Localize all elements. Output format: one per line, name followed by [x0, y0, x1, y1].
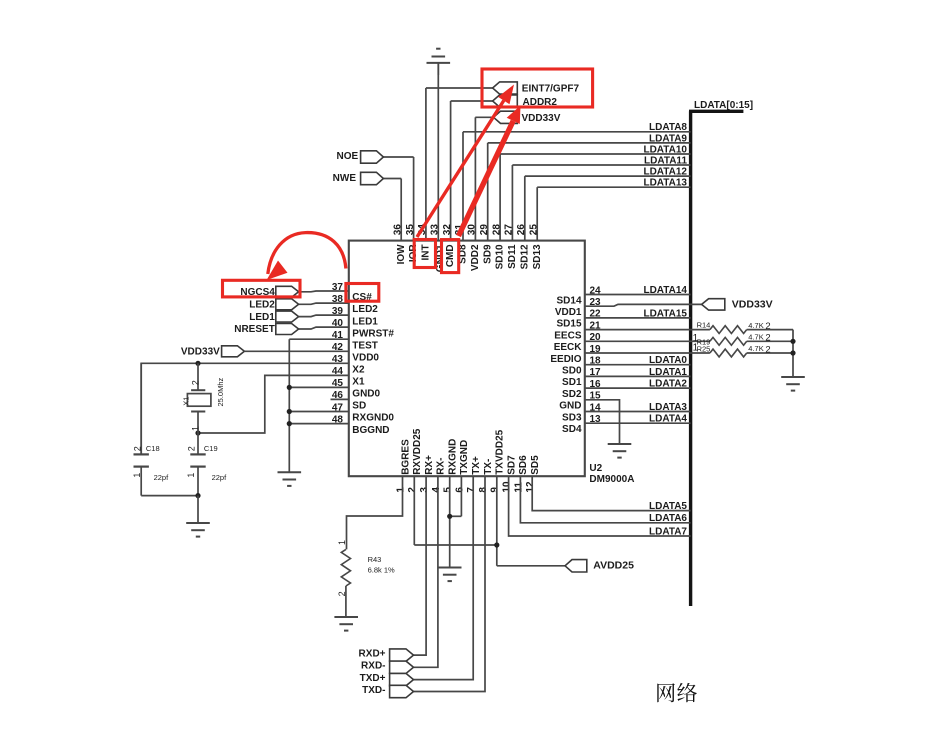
- svg-text:LED1: LED1: [249, 312, 275, 323]
- svg-text:SD11: SD11: [507, 244, 518, 269]
- ground symbol top (GND1 pin 33): [427, 49, 451, 75]
- wire EE pin 21 to resistor R14: [585, 329, 710, 331]
- svg-text:SD6: SD6: [518, 455, 529, 475]
- wire EE pin 20 to resistor R19: [585, 340, 710, 342]
- svg-text:26: 26: [516, 224, 527, 236]
- svg-text:VDD33V: VDD33V: [522, 113, 561, 124]
- U2 pin 38 LED2 (left): [332, 294, 378, 315]
- ground symbol below C19: [186, 496, 210, 537]
- wire TXD+ to pin 7: [414, 476, 474, 679]
- svg-text:46: 46: [332, 390, 344, 401]
- svg-text:LDATA13: LDATA13: [643, 178, 687, 189]
- node junction X1/crystal bottom: [195, 430, 200, 435]
- svg-text:X2: X2: [352, 365, 365, 376]
- U2 pin 32 CMD (top): [442, 101, 456, 267]
- svg-text:27: 27: [504, 224, 515, 236]
- svg-text:LDATA5: LDATA5: [649, 501, 687, 512]
- svg-text:LDATA15: LDATA15: [643, 308, 687, 319]
- node junction RXGND0: [287, 409, 292, 414]
- net label LDATA2: [649, 379, 687, 390]
- U2 pin 46 SD (left): [331, 390, 367, 411]
- wire LDATA2 pin 16 to bus: [585, 387, 691, 389]
- svg-text:SD15: SD15: [556, 319, 581, 330]
- wire X1 net: pin 44 to crystal bottom: [198, 375, 349, 433]
- R14 value 4.7K: [748, 321, 770, 332]
- svg-text:R14: R14: [697, 321, 711, 330]
- net label LDATA7: [649, 526, 687, 537]
- wire LDATA6 pin 11 to bus: [520, 476, 690, 523]
- svg-text:4.7K: 4.7K: [748, 344, 763, 353]
- svg-text:SD2: SD2: [562, 389, 582, 400]
- svg-text:32: 32: [442, 224, 453, 236]
- wire LDATA11 pin 27 to bus: [512, 164, 690, 166]
- svg-text:6.8k 1%: 6.8k 1%: [368, 565, 395, 574]
- svg-text:SD0: SD0: [562, 366, 582, 377]
- wire X2 net: pin 43 to crystal and C18: [141, 363, 349, 455]
- U2 pin 25 SD13 (top): [528, 187, 542, 269]
- crystal value 25.0Mhz: [216, 377, 225, 406]
- svg-text:LDATA8: LDATA8: [649, 122, 687, 133]
- svg-text:SD9: SD9: [482, 244, 493, 264]
- wire LDATA4 pin 13 to bus: [585, 422, 691, 424]
- wire TXD- to pin 8: [414, 476, 486, 691]
- wire VDD33V to pin 30: [475, 116, 493, 118]
- text label 网络 (network): [657, 683, 697, 702]
- svg-text:SD5: SD5: [530, 455, 541, 475]
- svg-text:22pf: 22pf: [154, 473, 170, 482]
- svg-text:SD3: SD3: [562, 412, 582, 423]
- wire LDATA5 pin 12 to bus: [532, 476, 690, 510]
- U2 pin 33 GND1 (top): [430, 63, 447, 272]
- svg-text:36: 36: [392, 224, 403, 236]
- C18 ref label: [146, 444, 160, 453]
- svg-text:SD14: SD14: [556, 295, 581, 306]
- U2 pin 27 SD11 (top): [504, 165, 518, 269]
- node RXD- flag: [361, 661, 413, 674]
- svg-text:11: 11: [513, 482, 524, 493]
- svg-text:9: 9: [490, 487, 501, 493]
- net label LDATA8: [649, 122, 687, 133]
- svg-text:EEDIO: EEDIO: [550, 354, 581, 365]
- net label LDATA12: [643, 167, 687, 178]
- svg-text:TXGND: TXGND: [459, 440, 470, 475]
- svg-text:33: 33: [430, 224, 441, 236]
- node EINT7/GPF7 flag: [493, 82, 580, 95]
- svg-text:VDD2: VDD2: [470, 244, 481, 271]
- ground symbol pin 15: [608, 444, 632, 458]
- node TXD- flag: [362, 685, 413, 698]
- net label LDATA14: [643, 285, 687, 296]
- svg-text:4.7K: 4.7K: [748, 321, 763, 330]
- svg-text:8: 8: [478, 487, 489, 493]
- node LED2 flag: [249, 299, 298, 311]
- svg-text:22pf: 22pf: [212, 473, 228, 482]
- wire LDATA3 pin 14 to bus: [585, 411, 691, 413]
- svg-text:2: 2: [191, 380, 201, 385]
- svg-text:LDATA6: LDATA6: [649, 513, 687, 524]
- U2 pin 5 RXGND (bottom): [443, 439, 459, 493]
- svg-text:RX-: RX-: [436, 458, 447, 475]
- wire EE pin 19 to resistor R25: [585, 352, 710, 354]
- ground symbol right (resistors): [781, 377, 805, 391]
- wire LDATA10 pin 28 to bus: [500, 153, 690, 155]
- svg-text:RXGND0: RXGND0: [352, 413, 394, 424]
- R43 pin 1 label: [337, 540, 347, 545]
- svg-text:1: 1: [693, 343, 699, 354]
- R25 value 4.7K: [748, 344, 770, 355]
- R19 ref label: [697, 338, 711, 347]
- U2 pin 19 EEDIO (right): [550, 344, 601, 365]
- node junction C19 bottom: [195, 493, 200, 498]
- svg-text:LED2: LED2: [249, 300, 275, 311]
- svg-text:RXD-: RXD-: [361, 661, 385, 672]
- svg-text:EINT7/GPF7: EINT7/GPF7: [522, 84, 580, 95]
- node ADDR2 flag: [493, 95, 558, 108]
- wire RXGND pin 5 / TXGND pin 6 to ground: [450, 476, 462, 567]
- svg-text:TEST: TEST: [352, 340, 378, 351]
- crystal X1 pin 1 label: [191, 426, 201, 431]
- U2 pin 41 TEST (left): [332, 330, 378, 351]
- node TXD+ flag: [360, 673, 414, 686]
- U2 pin 34 INT (top): [417, 88, 431, 261]
- svg-text:LDATA10: LDATA10: [643, 144, 687, 155]
- node AVDD25 flag: [565, 560, 634, 573]
- wire RXVDD25 pin 2 / TXVDD25 pin 9 to AVDD25: [414, 476, 565, 566]
- node junction R25 common: [790, 350, 795, 355]
- U2 reference designator text: [589, 463, 634, 485]
- ground symbol below R43: [334, 617, 358, 631]
- svg-text:TXD-: TXD-: [362, 685, 385, 696]
- U2 pin 39 LED1 (left): [332, 306, 378, 327]
- wire LED1 to pin 39: [299, 315, 349, 317]
- svg-text:DM9000A: DM9000A: [589, 474, 634, 485]
- svg-text:LED1: LED1: [352, 316, 378, 327]
- resistor R19 4.7K: [710, 337, 793, 345]
- svg-text:7: 7: [466, 487, 477, 493]
- U2 pin 47 RXGND0 (left): [332, 402, 395, 423]
- svg-text:BGRES: BGRES: [400, 439, 411, 475]
- U2 pin 44 X1 (left): [332, 366, 365, 387]
- U2 pin 48 BGGND (left): [332, 414, 390, 435]
- red highlight box CMD: [442, 240, 459, 273]
- U2 pin 1 BGRES (bottom): [395, 439, 411, 493]
- svg-text:VDD33V: VDD33V: [732, 298, 773, 310]
- wire LDATA9 pin 29 to bus: [488, 142, 691, 144]
- U2 pin 43 X2 (left): [332, 354, 365, 375]
- svg-text:NOE: NOE: [337, 151, 359, 162]
- svg-text:SD10: SD10: [495, 244, 506, 269]
- wire LDATA12 pin 26 to bus: [525, 175, 691, 177]
- U2 pin 29 SD9 (top): [479, 143, 493, 264]
- svg-text:VDD0: VDD0: [352, 352, 379, 363]
- svg-text:1: 1: [395, 487, 406, 493]
- U2 pin 4 RX- (bottom): [431, 458, 447, 493]
- U2 pin 23 VDD1 (right): [555, 297, 601, 318]
- R43 value 6.8k 1%: [368, 565, 395, 574]
- svg-text:2: 2: [187, 446, 197, 451]
- U2 pin 26 SD12 (top): [516, 176, 530, 269]
- node VDD33V flag (top, pin 30 VDD2): [494, 111, 561, 124]
- wire BGRES pin 1 to R43: [347, 476, 403, 549]
- C19 pin 1 label: [186, 473, 196, 478]
- net label LDATA3: [649, 402, 687, 413]
- U2 pin 13 SD4 (right): [562, 414, 601, 435]
- U2 pin 21 EECS (right): [554, 320, 601, 341]
- wire LDATA0 pin 18 to bus: [585, 364, 691, 366]
- svg-text:SD: SD: [352, 401, 366, 412]
- svg-text:AVDD25: AVDD25: [593, 560, 634, 572]
- svg-text:LDATA2: LDATA2: [649, 379, 687, 390]
- net label LDATA5: [649, 501, 687, 512]
- U2 pin 14 SD3 (right): [562, 402, 601, 423]
- wire R43 to ground: [345, 586, 347, 617]
- capacitor C19 22pf: [190, 433, 205, 496]
- svg-text:6: 6: [454, 487, 465, 493]
- U2 pin 28 SD10 (top): [491, 154, 505, 269]
- svg-text:2: 2: [765, 344, 770, 355]
- U2 pin 15 GND (right): [559, 391, 601, 412]
- svg-text:4.7K: 4.7K: [748, 333, 763, 342]
- U2 pin 40 PWRST# (left): [332, 318, 395, 339]
- U2 pin 18 SD0 (right): [562, 356, 601, 377]
- net label LDATA13: [643, 178, 687, 189]
- U2 pin 2 RXVDD25 (bottom): [407, 428, 423, 492]
- wire LED2 to pin 38: [299, 303, 349, 304]
- svg-text:INT: INT: [421, 244, 432, 260]
- U2 pin 8 TX- (bottom): [478, 459, 494, 493]
- node junction TXVDD25: [494, 542, 499, 547]
- svg-text:25.0Mhz: 25.0Mhz: [216, 377, 225, 406]
- node junction GND0: [287, 385, 292, 390]
- U2 pin 37 CS# (left): [332, 282, 372, 303]
- node LED1 flag: [249, 311, 298, 323]
- svg-text:RXGND: RXGND: [448, 439, 459, 475]
- R25 ref label: [697, 345, 711, 354]
- svg-text:NRESET: NRESET: [234, 324, 275, 335]
- U2 pin 35 IOR (top): [405, 157, 419, 262]
- net label LDATA11: [644, 155, 687, 166]
- svg-text:SD4: SD4: [562, 424, 582, 435]
- wire GND pin 15 to ground: [585, 400, 620, 444]
- svg-text:LDATA7: LDATA7: [649, 526, 687, 537]
- svg-text:3: 3: [419, 487, 430, 493]
- node junction R19 common: [790, 339, 795, 344]
- C18 pin 2 label: [133, 446, 143, 451]
- svg-text:LDATA9: LDATA9: [649, 133, 687, 144]
- svg-text:RXVDD25: RXVDD25: [412, 428, 423, 475]
- wire C18 bottom to C19 bottom: [141, 495, 198, 497]
- svg-text:LED2: LED2: [352, 304, 378, 315]
- node VDD33V flag (right, pin 23): [702, 298, 773, 310]
- svg-text:SD7: SD7: [506, 455, 517, 475]
- wire resistor common to ground: [792, 330, 794, 377]
- capacitor C18 22pf: [134, 363, 149, 495]
- svg-text:LDATA11: LDATA11: [644, 155, 687, 166]
- svg-text:2: 2: [765, 321, 770, 332]
- crystal X1 ref label: [181, 397, 190, 406]
- svg-text:28: 28: [491, 224, 502, 236]
- C18 value 22pf: [154, 473, 170, 482]
- U2 pin 36 IOW (top): [392, 179, 406, 265]
- red arrow INT to EINT7/GPF7: [417, 85, 514, 238]
- svg-text:5: 5: [443, 487, 454, 493]
- svg-text:TX+: TX+: [471, 456, 482, 475]
- net label LDATA4: [649, 414, 687, 425]
- node NRESET flag: [234, 324, 298, 336]
- net label LDATA15: [643, 308, 687, 319]
- wire LDATA8 pin 31 to bus: [463, 131, 691, 133]
- svg-text:CMD: CMD: [445, 244, 456, 267]
- svg-text:VDD33V: VDD33V: [181, 347, 220, 358]
- U2 pin 30 VDD2 (top): [467, 117, 481, 271]
- svg-text:LDATA3: LDATA3: [649, 402, 687, 413]
- net label LDATA1: [649, 367, 687, 378]
- resistor R14 4.7K: [710, 326, 793, 334]
- wire RXD+ to pin 3: [414, 476, 427, 655]
- R19 value 4.7K: [748, 333, 770, 344]
- svg-text:LDATA[0:15]: LDATA[0:15]: [694, 100, 753, 111]
- C18 pin 1 label: [132, 473, 142, 478]
- U2 pin 16 SD2 (right): [562, 379, 601, 400]
- red highlight box INT: [414, 240, 435, 268]
- U2 pin 45 GND0 (left): [332, 378, 381, 399]
- crystal X1 25.0Mhz: [187, 363, 211, 433]
- bus LDATA[0:15]: [689, 100, 753, 606]
- svg-text:RX+: RX+: [424, 455, 435, 475]
- svg-text:4: 4: [431, 487, 442, 493]
- U2 pin 17 SD1 (right): [562, 367, 601, 388]
- node NGCS4 flag: [240, 286, 298, 298]
- svg-text:EECK: EECK: [554, 342, 583, 353]
- resistor R25 4.7K: [710, 349, 793, 357]
- svg-text:10: 10: [502, 481, 513, 493]
- svg-text:35: 35: [405, 224, 416, 236]
- svg-text:29: 29: [479, 224, 490, 236]
- wire EINT7/GPF7 to pin 34: [426, 87, 493, 89]
- ground symbol RX/TX gnd: [438, 568, 462, 582]
- net label LDATA0: [649, 355, 687, 366]
- svg-text:BGGND: BGGND: [352, 425, 389, 436]
- U2 pin 11 SD6 (bottom): [513, 455, 529, 493]
- node NWE flag: [333, 172, 384, 184]
- wire TEST/GND0/RXGND0/BGGND ground rail: [289, 339, 349, 472]
- R43 pin 2 label: [337, 591, 347, 596]
- svg-text:NWE: NWE: [333, 173, 357, 184]
- wire NGCS4 to pin 37: [299, 290, 349, 293]
- U2 pin 20 EECK (right): [554, 332, 601, 353]
- svg-text:PWRST#: PWRST#: [352, 328, 394, 339]
- svg-text:1: 1: [191, 426, 201, 431]
- svg-text:GND: GND: [559, 401, 581, 412]
- svg-text:LDATA0: LDATA0: [649, 355, 687, 366]
- U2 pin 42 VDD0 (left): [332, 342, 380, 363]
- svg-text:2: 2: [765, 333, 770, 344]
- svg-text:C19: C19: [204, 444, 218, 453]
- svg-text:EECS: EECS: [554, 330, 582, 341]
- svg-text:C18: C18: [146, 444, 160, 453]
- svg-text:TXD+: TXD+: [360, 673, 386, 684]
- red highlight box CS#: [346, 284, 379, 302]
- U2 pin 22 SD15 (right): [556, 309, 601, 330]
- svg-text:25: 25: [528, 224, 539, 236]
- U2 pin 7 TX+ (bottom): [466, 456, 482, 493]
- C19 pin 2 label: [187, 446, 197, 451]
- U2 pin 31 SD8 (top): [454, 132, 468, 264]
- svg-text:X1: X1: [181, 397, 190, 406]
- svg-text:1: 1: [132, 473, 142, 478]
- ground symbol left rail: [278, 472, 302, 486]
- net label LDATA6: [649, 513, 687, 524]
- svg-text:LDATA1: LDATA1: [649, 367, 687, 378]
- svg-text:VDD1: VDD1: [555, 307, 582, 318]
- svg-text:R25: R25: [697, 345, 711, 354]
- node NOE flag: [337, 151, 384, 163]
- U2 pin 3 RX+ (bottom): [419, 455, 435, 493]
- svg-text:SD1: SD1: [562, 377, 582, 388]
- C19 value 22pf: [212, 473, 228, 482]
- svg-text:12: 12: [525, 481, 536, 493]
- wire LDATA14 pin 24 to bus: [585, 294, 691, 296]
- IC U2 DM9000A body: [349, 241, 585, 477]
- net label LDATA10: [643, 144, 687, 155]
- C19 ref label: [204, 444, 218, 453]
- node junction pin5/pin6 gnd: [447, 514, 452, 519]
- svg-text:TXVDD25: TXVDD25: [495, 429, 506, 474]
- svg-text:R43: R43: [368, 555, 382, 564]
- node RXD+ flag: [359, 649, 414, 662]
- U2 pin 6 TXGND (bottom): [454, 440, 470, 493]
- U2 pin 9 TXVDD25 (bottom): [490, 429, 506, 492]
- red arrow CMD to ADDR2: [459, 106, 521, 237]
- svg-text:SD12: SD12: [519, 244, 530, 269]
- U2 pin 24 SD14 (right): [556, 285, 601, 306]
- wire NRESET to pin 40: [299, 327, 349, 329]
- wire LDATA1 pin 17 to bus: [585, 375, 691, 377]
- svg-text:GND0: GND0: [352, 389, 380, 400]
- svg-text:1: 1: [186, 473, 196, 478]
- svg-text:LDATA4: LDATA4: [649, 414, 687, 425]
- net label LDATA9: [649, 133, 687, 144]
- wire VDD1 pin 23 to VDD33V flag: [585, 304, 702, 306]
- svg-text:X1: X1: [352, 377, 365, 388]
- red highlight box EINT7/ADDR2: [482, 69, 593, 107]
- svg-text:2: 2: [133, 446, 143, 451]
- svg-text:RXD+: RXD+: [359, 649, 386, 660]
- red curved arrow CS# to NGCS4: [267, 233, 346, 280]
- wire LDATA15 pin 22 to bus: [585, 317, 691, 319]
- svg-text:SD13: SD13: [532, 244, 543, 269]
- svg-text:TX-: TX-: [483, 459, 494, 475]
- R14 ref label: [697, 321, 711, 330]
- svg-text:IOW: IOW: [396, 244, 407, 265]
- U2 pin 10 SD7 (bottom): [502, 455, 518, 493]
- svg-text:LDATA14: LDATA14: [643, 285, 687, 296]
- node junction X2/crystal top: [195, 361, 200, 366]
- svg-text:1: 1: [337, 540, 347, 545]
- svg-text:30: 30: [467, 224, 478, 236]
- node junction BGGND: [287, 421, 292, 426]
- crystal X1 pin 2 label: [191, 380, 201, 385]
- wire ADDR2 to pin 32: [451, 100, 493, 102]
- R25 pin 1 label: [693, 343, 699, 354]
- wire NWE to pin 36: [383, 178, 401, 180]
- svg-text:2: 2: [407, 487, 418, 493]
- wire VDD33V to pin 42: [244, 350, 348, 352]
- U2 pin 12 SD5 (bottom): [525, 455, 541, 493]
- R43 ref label: [368, 555, 382, 564]
- wire NOE to pin 35: [383, 156, 413, 158]
- resistor R43 6.8k 1%: [341, 549, 350, 586]
